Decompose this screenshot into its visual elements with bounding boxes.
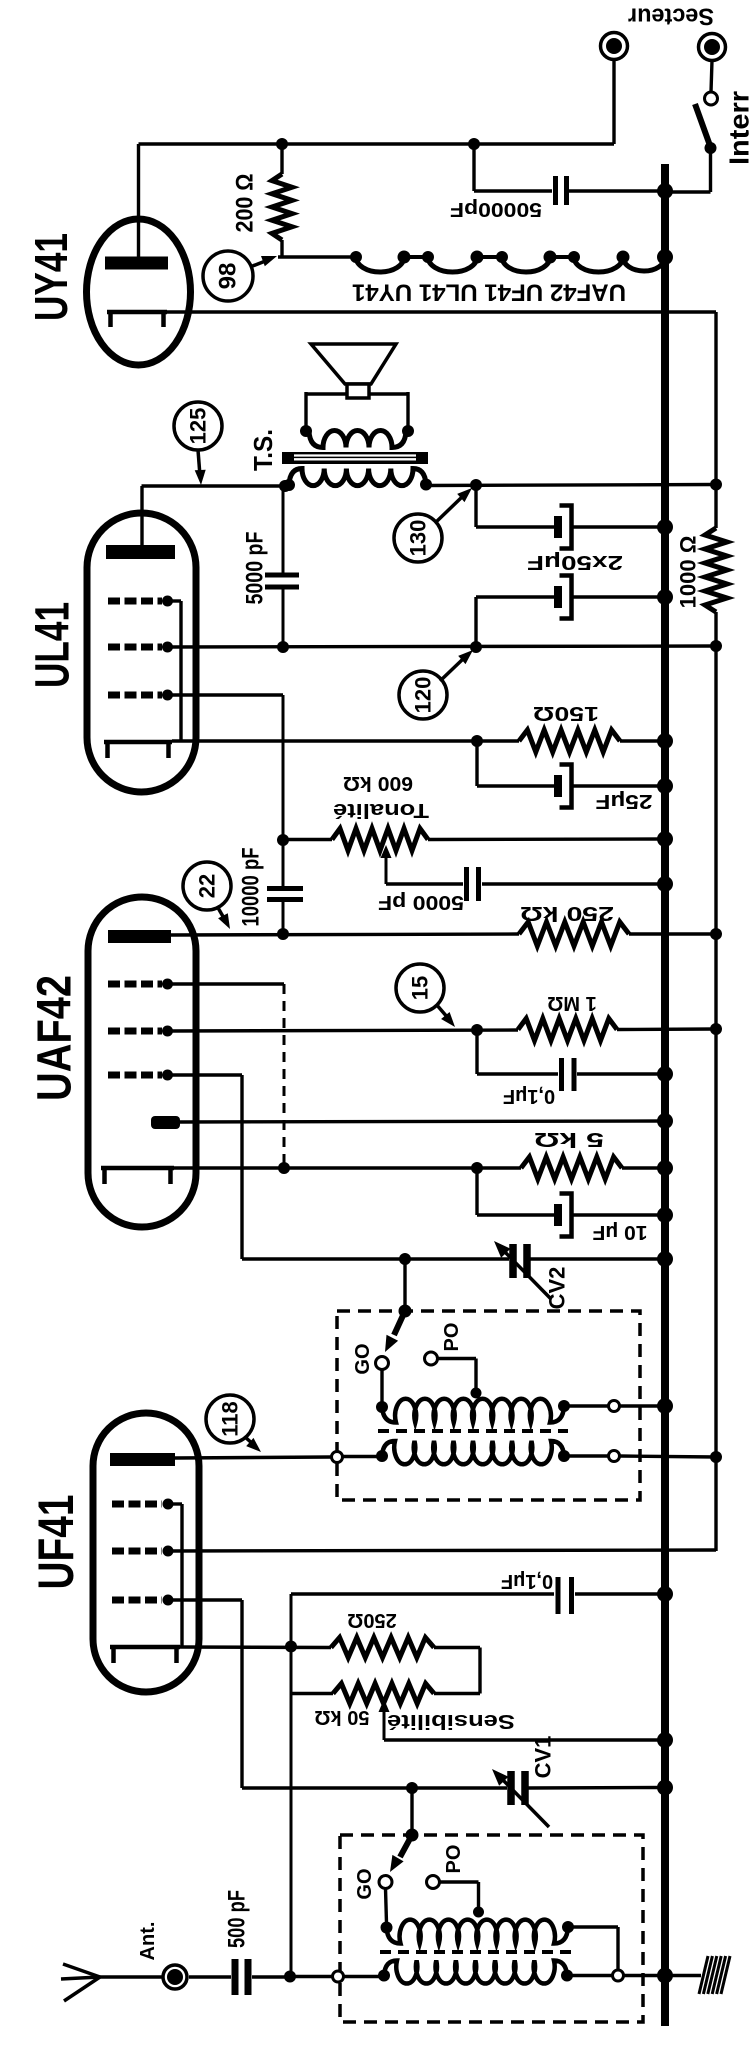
svg-text:UF41: UF41 (28, 1495, 84, 1590)
wire ant box left lead (290, 1975, 333, 1978)
node bus dot CV2 (657, 1251, 673, 1267)
wire top mains rail (139, 142, 615, 145)
label 25uF (596, 790, 653, 812)
wire coupling branch lower (282, 902, 285, 934)
wire osc secondary left (343, 1455, 383, 1458)
resistor 250kohm (519, 922, 629, 946)
node 130 (394, 514, 442, 562)
label heater chain tubes (352, 279, 626, 306)
wire coupling branch upper (282, 695, 285, 887)
wire UF41 cathode rail (180, 1645, 331, 1649)
node junction g3 cathode (278, 1162, 290, 1174)
label Ant. (137, 1922, 159, 1961)
wire tone wiper (381, 845, 392, 884)
node mains terminal 1 (Secteur) (601, 33, 628, 60)
wire ant primary right (568, 1927, 618, 1970)
svg-text:600 kΩ: 600 kΩ (343, 772, 413, 794)
wire 50000pF right lead (569, 189, 665, 192)
label 5000pF tone (378, 891, 464, 913)
wire tone pot left (283, 838, 332, 841)
resistor 5kohm (521, 1157, 622, 1179)
wire 10uF right (572, 1213, 666, 1216)
tube UAF42 grid2 (108, 1026, 173, 1037)
wire switch to bus (665, 190, 711, 193)
resistor 200ohm R-heater (272, 174, 292, 240)
node 125 (174, 402, 222, 450)
wire terminal1 down (612, 60, 615, 145)
label 5kohm (534, 1128, 604, 1150)
node junction cathode 5k (471, 1162, 483, 1174)
node osc PO contact (425, 1352, 438, 1365)
svg-text:5000 pF: 5000 pF (378, 891, 464, 913)
wire 50000pF left lead (474, 189, 552, 192)
tube UF41 envelope (93, 1413, 199, 1692)
resistor 250ohm (331, 1638, 434, 1658)
capacitor 0,1uF cathode (558, 1577, 572, 1614)
svg-text:UL41: UL41 (27, 602, 80, 688)
tube UL41 grid2 (108, 642, 173, 653)
node bus dot 10uF (657, 1207, 673, 1223)
wire arrow 130 (435, 488, 472, 523)
wire 0,1uF left (477, 1030, 558, 1074)
node junction 200ohm top (276, 138, 288, 150)
wire UL41 screen rail (168, 646, 717, 647)
node junction g2 cap (471, 1024, 483, 1036)
node junction 50000pF branch (468, 138, 480, 150)
node junction ant switch (406, 1782, 418, 1794)
core oscillator (378, 1429, 568, 1433)
wire 25uF right (572, 784, 666, 787)
node osc secondary terminal left (332, 1452, 343, 1463)
wire 10uF left (477, 1168, 554, 1215)
label osc PO (441, 1323, 463, 1352)
wire UAF42 cathode rail (174, 1166, 521, 1169)
wire CV1 arrow (492, 1769, 549, 1827)
switch Interr (695, 92, 718, 154)
svg-text:UAF42: UAF42 (29, 975, 82, 1101)
coil oscillator secondary (376, 1441, 570, 1464)
node 98 (203, 251, 253, 301)
wire arrow 22 (217, 906, 230, 929)
wire oscillator grid rail (242, 1257, 509, 1260)
box oscillator (337, 1311, 640, 1500)
svg-text:10000 pF: 10000 pF (238, 848, 265, 927)
svg-text:CV1: CV1 (531, 1736, 556, 1779)
wire UY41 plate riser (137, 144, 140, 257)
label 0,1uF AVC (503, 1085, 555, 1107)
label Interr (724, 91, 751, 165)
capacitor CV2 (513, 1244, 527, 1278)
svg-text:50 kΩ: 50 kΩ (315, 1706, 370, 1728)
capacitor 10uF (554, 1194, 572, 1237)
ground chassis (699, 1956, 730, 1994)
label 50000pF (450, 198, 542, 220)
wire transformer to HT (425, 485, 716, 486)
wire heater chain lead (278, 255, 356, 258)
wire UAF42 plate rail (171, 934, 519, 935)
wire arrow 15 (436, 1004, 455, 1027)
speaker cone (311, 344, 396, 384)
node HT dot top (710, 479, 722, 491)
wire antenna grid rail (242, 1786, 507, 1789)
svg-text:UAF42 UF41 UL41 UY41: UAF42 UF41 UL41 UY41 (352, 279, 626, 306)
svg-text:15: 15 (408, 976, 433, 1000)
wire 1M right (617, 1027, 716, 1031)
svg-text:5000 pF: 5000 pF (242, 532, 269, 605)
wire UL41 g1 lead (168, 693, 284, 696)
tube UF41 grid3 (112, 1499, 174, 1510)
node bus dot cap1 (657, 519, 673, 535)
speaker throat (347, 384, 369, 398)
wire ant GO to coil (386, 1889, 387, 1924)
tube UL41 envelope (87, 513, 196, 792)
node junction 10000pF plate (277, 928, 289, 940)
svg-text:10 μF: 10 μF (593, 1221, 648, 1243)
tube UF41 grid1 (112, 1595, 174, 1606)
wire 200ohm bottom lead (280, 240, 283, 257)
antenna symbol (61, 1964, 163, 2001)
wire osc GO to coil (380, 1370, 383, 1403)
tube UAF42 plate (108, 930, 171, 943)
node ant terminal left (333, 1971, 344, 1982)
wire UL41 plate riser (140, 486, 143, 545)
core antenna (380, 1950, 572, 1954)
coil speaker voice coil (309, 431, 406, 448)
tube UL41 cathode (104, 742, 172, 758)
coil antenna primary (381, 1920, 575, 1944)
transformer T.S. core (282, 452, 428, 464)
label 0,1uF cathode (501, 1570, 553, 1592)
resistor 150ohm (519, 730, 620, 752)
node junction screen cap2 (470, 641, 482, 653)
node osc switch pivot (399, 1305, 412, 1318)
capacitor 5000pF plate-screen (265, 486, 299, 647)
potentiometer Tonalite 600k (332, 829, 428, 851)
wire UL41 g3 to cathode (168, 601, 182, 742)
node 120 (399, 671, 447, 719)
tube UY41 plate (105, 257, 168, 270)
svg-text:CV2: CV2 (545, 1267, 570, 1310)
node junction osc coil (399, 1253, 411, 1265)
node 15 (396, 964, 444, 1012)
node antenna terminal (163, 1965, 187, 1989)
tube UAF42 grid3 (108, 979, 173, 990)
wire main bus (661, 164, 669, 2026)
svg-text:2x50μF: 2x50μF (527, 551, 623, 573)
svg-text:Tonalité: Tonalité (333, 799, 429, 821)
wire UY41 cathode to right (167, 310, 716, 313)
tube UL41 grid3 (108, 596, 173, 607)
node osc primary terminal (609, 1401, 620, 1412)
tube UAF42 diode plate (151, 1116, 180, 1129)
label 50kohm (315, 1706, 370, 1728)
label 200ohm (232, 174, 259, 233)
capacitor 2x50uF lower (554, 576, 572, 619)
svg-text:200 Ω: 200 Ω (232, 174, 259, 233)
wire osc secondary right (564, 1454, 609, 1457)
wire sens wiper rail (384, 1738, 665, 1741)
svg-text:GO: GO (352, 1343, 374, 1374)
wire HT right column upper (714, 312, 717, 528)
node bus dot 50000pF (657, 183, 673, 199)
node HT dot osc (710, 1451, 722, 1463)
label Tonalite (333, 799, 429, 821)
wire CV1 right (528, 1786, 665, 1790)
svg-text:1 MΩ: 1 MΩ (547, 992, 596, 1014)
node bus dot 5k (657, 1160, 673, 1176)
capacitor 50000pF (556, 176, 567, 205)
node bus dot diode (657, 1113, 673, 1129)
label 250kohm (520, 902, 614, 924)
wire cap to box (252, 1975, 290, 1978)
wire arrow 118 (245, 1437, 261, 1452)
wire 150ohm right (620, 739, 665, 742)
tube UL41 plate (106, 545, 175, 559)
node ant PO contact (427, 1876, 440, 1889)
wire UF41 g3 to cathode (168, 1504, 182, 1647)
wire cathode vertical link (290, 1594, 293, 1977)
wire osc primary to bus (620, 1404, 666, 1407)
wire ant switch riser (410, 1788, 413, 1835)
box antenna coils (340, 1835, 643, 2022)
capacitor 5000pF tone (467, 867, 479, 901)
wire arrow 120 (440, 650, 473, 681)
wire pot left link (291, 1692, 333, 1695)
wire UAF42 g1 lead (168, 1075, 243, 1259)
node ant switch pivot (406, 1829, 419, 1842)
label 5000pF (242, 532, 269, 605)
label Sensibilite (387, 1710, 515, 1732)
node bus dot 25uF (657, 778, 673, 794)
tube UAF42 grid1 (108, 1070, 173, 1081)
wire 0,1uF right (577, 1072, 665, 1075)
svg-text:5 kΩ: 5 kΩ (534, 1128, 604, 1150)
wire 250k right (629, 932, 716, 935)
coil oscillator primary (376, 1399, 570, 1423)
wire UF41 g2 rail (168, 1550, 716, 1551)
wire ant secondary right (566, 1974, 613, 1977)
node bus dot cap2 (657, 589, 673, 605)
label 10uF (593, 1221, 648, 1243)
node ant coil tap (473, 1907, 484, 1918)
svg-text:T.S.: T.S. (248, 429, 278, 471)
node 118 (206, 1395, 254, 1443)
wire tone cap left (386, 882, 463, 885)
node junction tone pot (277, 834, 289, 846)
capacitor 2x50uF upper (554, 506, 572, 549)
label UY41 (25, 233, 77, 321)
label UF41 (28, 1495, 84, 1590)
node junction 5000pF bottom (277, 641, 289, 653)
wire UL41 cathode rail (172, 739, 519, 742)
node osc secondary terminal right (609, 1451, 620, 1462)
tube UY41 envelope (87, 219, 191, 365)
resistor 1000ohm (705, 528, 727, 612)
svg-text:PO: PO (441, 1323, 463, 1352)
node bus dot antenna (657, 1968, 673, 1984)
wire 25uF left (477, 741, 554, 786)
wire osc PO tap (438, 1359, 477, 1392)
wire antenna to cap (189, 1975, 231, 1978)
node osc GO contact (376, 1357, 389, 1370)
tube UF41 grid2 (112, 1546, 174, 1557)
wire CV2 arrow (494, 1241, 551, 1299)
label 1000ohm (676, 536, 701, 609)
wire osc primary right (564, 1404, 609, 1407)
wire 50000pF branch down (472, 144, 475, 191)
svg-text:150Ω: 150Ω (533, 702, 599, 724)
wire plate rail UL41 to transformer (142, 484, 288, 487)
tube UF41 plate (110, 1453, 175, 1466)
node 22 (183, 862, 231, 910)
svg-text:98: 98 (215, 263, 242, 290)
node junction ant return (284, 1971, 296, 1983)
resistor 1Mohm (518, 1019, 617, 1041)
label ant PO (443, 1845, 465, 1874)
wire 0,1uF cath right (575, 1592, 665, 1595)
svg-text:Secteur: Secteur (628, 3, 714, 30)
wire tone cap right (482, 882, 665, 885)
svg-text:118: 118 (218, 1401, 243, 1437)
label 10000pF (238, 848, 265, 927)
svg-text:0,1μF: 0,1μF (501, 1570, 553, 1592)
label 250ohm (347, 1609, 396, 1631)
svg-text:130: 130 (406, 520, 431, 557)
capacitor 0,1uF AVC (562, 1058, 575, 1091)
wire terminal2 to switch (711, 61, 712, 93)
label ant GO (354, 1868, 376, 1899)
wire 0,1uF cath left (291, 1592, 554, 1595)
wire CV2 right (530, 1257, 665, 1260)
node HT dot 1M (710, 1023, 722, 1035)
wire HT right column lower (714, 612, 717, 1551)
svg-text:120: 120 (411, 677, 436, 714)
node bus dot tone cap (657, 876, 673, 892)
svg-text:22: 22 (195, 874, 220, 898)
capacitor CV1 (511, 1771, 525, 1805)
svg-text:250Ω: 250Ω (347, 1609, 396, 1631)
coil antenna secondary (378, 1961, 573, 1984)
wire UAF42 g2 rail (168, 1030, 519, 1031)
wire UF41 g1 lead (168, 1600, 242, 1788)
svg-text:125: 125 (186, 408, 211, 445)
label UAF42 (29, 975, 82, 1101)
wire tone pot right (428, 837, 665, 841)
svg-text:50000pF: 50000pF (450, 198, 542, 220)
label UL41 (27, 602, 80, 688)
wire filter cap2 right (572, 595, 666, 598)
svg-text:1000 Ω: 1000 Ω (676, 536, 701, 609)
tube UL41 grid1 (108, 690, 173, 701)
tube UY41 cathode (107, 312, 167, 327)
svg-text:Interr: Interr (724, 91, 751, 165)
node bus dot sens (657, 1732, 673, 1748)
wire ant PO tap (440, 1882, 479, 1909)
svg-text:0,1μF: 0,1μF (503, 1085, 555, 1107)
capacitor 25uF (554, 765, 572, 808)
wire osc secondary to HT (620, 1456, 717, 1457)
potentiometer Sensibilite 50k (333, 1684, 434, 1704)
svg-text:GO: GO (354, 1868, 376, 1899)
label 600kohm (343, 772, 413, 794)
label Secteur (628, 3, 714, 30)
node osc coil tap (471, 1388, 482, 1399)
wire filter cap1 right (572, 525, 666, 528)
svg-text:250 kΩ: 250 kΩ (520, 902, 614, 924)
svg-text:UY41: UY41 (25, 233, 77, 321)
wire osc switch riser (403, 1259, 406, 1311)
wire 200ohm top lead (280, 144, 283, 174)
switch osc GO/PO (385, 1311, 405, 1352)
node bus dot tone (657, 831, 673, 847)
wire arrow 98 (250, 256, 277, 267)
node bus dot CV1 (657, 1780, 673, 1796)
label 1Mohm (547, 992, 596, 1014)
wire sens wiper (379, 1699, 390, 1740)
label osc GO (352, 1343, 374, 1374)
node junction 5000pF top (279, 480, 291, 492)
tube UAF42 envelope (88, 897, 196, 1227)
svg-text:500 pF: 500 pF (224, 1890, 251, 1948)
wire UAF42 g3 lead (168, 984, 285, 1168)
node bus dot 0,1uF (657, 1066, 673, 1082)
svg-text:Ant.: Ant. (137, 1922, 159, 1961)
wire ant secondary left (344, 1975, 389, 1978)
node HT dot 250k (710, 928, 722, 940)
label T.S. (248, 429, 278, 471)
node ant terminal right (613, 1970, 624, 1981)
wire diode rail (180, 1121, 665, 1122)
wire arrow 125 (195, 450, 206, 485)
svg-text:25μF: 25μF (596, 790, 653, 812)
wire 250ohm right loop (434, 1648, 480, 1694)
capacitor 500pF (235, 1959, 248, 1995)
label CV2 (545, 1267, 570, 1310)
node junction cathode net (285, 1641, 297, 1653)
node bus dot osc (657, 1398, 673, 1414)
node HT dot screen (710, 640, 722, 652)
svg-text:PO: PO (443, 1845, 465, 1874)
node voice coil ends (300, 425, 414, 437)
tube UAF42 cathode (101, 1168, 174, 1184)
label 2x50uF (527, 551, 623, 573)
node bus dot 0,1uF cath (657, 1586, 673, 1602)
label 500pF (224, 1890, 251, 1948)
node junction filter top (470, 479, 482, 491)
node ant GO contact (379, 1876, 392, 1889)
wire 5k right (622, 1166, 665, 1169)
coil T.S. primary (283, 469, 432, 492)
wire switch down (709, 148, 712, 192)
node junction cathode 150 (471, 735, 483, 747)
capacitor 10000pF (267, 889, 303, 900)
svg-text:Sensibilité: Sensibilité (387, 1710, 515, 1732)
heater chain arcs (350, 251, 665, 273)
switch ant GO/PO (390, 1835, 412, 1872)
label CV1 (531, 1736, 556, 1779)
wire ant to ground (624, 1974, 702, 1977)
wire UF41 plate rail (175, 1457, 332, 1458)
wire filter cap2 left (476, 597, 554, 647)
node mains terminal 2 (Secteur) (699, 34, 726, 61)
label 150ohm (533, 702, 599, 724)
tube UF41 cathode (110, 1647, 180, 1663)
node bus dot 150ohm (657, 733, 673, 749)
node bus dot heater chain (657, 249, 673, 265)
wire voice coil frame (306, 392, 408, 431)
wire filter cap1 left (476, 485, 554, 527)
